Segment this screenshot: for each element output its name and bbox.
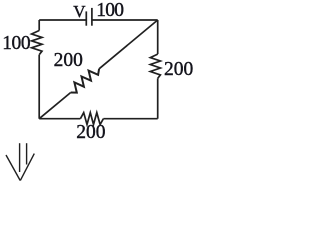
wire left upper bbox=[38, 20, 40, 31]
arrow head left stroke bbox=[6, 155, 20, 181]
down arrow (double shaft) bbox=[6, 143, 34, 180]
diagonal wire upper bbox=[99, 20, 158, 69]
battery short plate bbox=[85, 11, 87, 25]
battery V1 bbox=[86, 8, 92, 26]
arrow head right stroke bbox=[20, 154, 34, 181]
label 200 (diagonal resistor) bbox=[54, 51, 83, 71]
resistor 200 (right) bbox=[150, 54, 160, 78]
battery long plate bbox=[91, 8, 93, 26]
wire right upper bbox=[157, 20, 159, 54]
wire left lower bbox=[38, 55, 40, 119]
wire top-right segment bbox=[92, 19, 158, 21]
arrow shaft right bbox=[26, 143, 28, 164]
diagonal wire lower bbox=[39, 93, 70, 119]
label 100 (top, battery) bbox=[96, 1, 123, 21]
label 200 (right resistor) bbox=[164, 60, 193, 80]
resistor 100 (left) bbox=[32, 31, 42, 55]
label 200 (bottom resistor) bbox=[76, 123, 105, 143]
arrow shaft left bbox=[19, 143, 21, 172]
wire bottom left segment bbox=[39, 118, 80, 120]
resistor 200 (diagonal) bbox=[71, 69, 99, 93]
wire top-left segment bbox=[39, 19, 86, 21]
wire right lower bbox=[157, 78, 159, 118]
label V (source) bbox=[73, 3, 85, 20]
wire bottom right segment bbox=[103, 118, 157, 120]
label 100 (left resistor) bbox=[2, 34, 30, 54]
resistor 200 (bottom) bbox=[80, 113, 103, 125]
